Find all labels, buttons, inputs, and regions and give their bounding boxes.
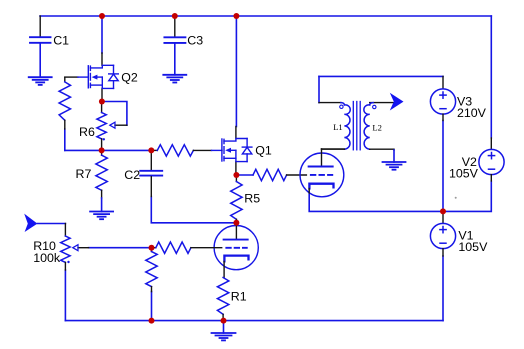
wire V2 right column [490,16,492,138]
ground (R7) [90,212,113,220]
ground (C1) [29,77,52,85]
svg-text:100k: 100k [33,251,61,265]
transformer L2 winding [364,103,395,150]
ground (R1) [212,321,236,341]
junction node rail-Q1 drain [233,13,239,19]
wire R6 wiper loop [102,102,127,126]
source V1 [430,211,488,256]
wire Q2 drain column [101,16,103,53]
potentiometer R10 [33,224,88,271]
capacitor C1 [30,16,69,77]
wire node to lower resistor [151,292,153,321]
ground (L2) [383,150,406,170]
svg-text:R7: R7 [76,167,92,181]
wire L1 top [318,76,320,102]
svg-text:Q2: Q2 [121,71,138,85]
wire top rail [40,15,491,17]
output port arrow [390,93,404,111]
ground (C3) [163,75,186,83]
junction node Q2 source/R6 top [99,99,105,105]
tube U1 (lower triode) [214,223,258,278]
svg-text:105V: 105V [458,240,488,254]
wire V1 bottom [442,256,444,321]
transformer L1 bottom lead [322,148,345,150]
junction node bottom rail/resistor [149,318,155,324]
wire Q1 drain column [235,16,237,127]
transformer L1 winding [319,103,350,150]
wire V2 bottom to node B [443,181,491,211]
capacitor C2 [124,150,162,196]
wire C2 bottom [151,197,236,223]
resistor (Q2 gate) [59,77,70,129]
junction node B V1/V2/V3/cathode [440,208,446,214]
junction node R6/R7/gate-resistor [99,147,105,153]
wire R10 wiper to node [89,247,152,249]
source V2 [449,138,504,181]
svg-text:R5: R5 [244,192,260,206]
wire upper tube cathode [309,193,443,211]
junction node bottom rail/R1 ground [221,318,227,324]
junction node C2/Q1-gate resistor [148,147,154,153]
svg-text:Q1: Q1 [255,143,272,157]
capacitor C3 [164,16,203,75]
transformer L2 bottom lead [370,148,394,151]
junction node rail-C1/Q2 drain [99,13,105,19]
svg-text:105V: 105V [449,166,479,180]
transistor Q2 [65,53,138,102]
resistor (C2 node to Q1 gate) [151,145,222,156]
svg-text:R1: R1 [231,290,247,304]
wire node R6/R7 horizontal [65,149,152,151]
resistor R7 [76,150,108,211]
svg-text:C3: C3 [187,34,203,48]
svg-text:L2: L2 [372,122,382,132]
wire gate resistor bottom [64,129,66,150]
transistor Q1 [222,127,272,176]
wire V3-V1 column [442,121,444,212]
wire input to R10 [37,223,65,225]
potentiometer R6 [79,102,127,151]
wire R10 left column [64,270,66,321]
wire bottom rail [65,320,443,322]
resistor (R10 node to U1 grid) [152,242,222,253]
wire V3 top horizontal [319,75,443,77]
svg-text:210V: 210V [457,106,487,120]
resistor R1 [217,278,246,321]
svg-text:R6: R6 [79,125,95,139]
stray speck [455,197,457,199]
svg-text:L1: L1 [333,122,343,132]
junction node R10 wiper/U1 grid [149,245,155,251]
transformer core [353,102,360,150]
junction node rail-C3 [172,13,178,19]
source V3 [430,76,486,120]
svg-text:C1: C1 [53,34,69,48]
resistor (Q1 source to output tube grid) [236,169,306,180]
resistor R5 [231,175,261,223]
svg-text:C2: C2 [124,168,140,182]
junction node Q1 source/R5 [233,172,239,178]
input port arrow [24,214,37,232]
tube U2 (output triode) [300,149,344,197]
junction node R5/C2/U1 plate [233,220,239,226]
resistor (node to ground rail) [146,248,157,292]
